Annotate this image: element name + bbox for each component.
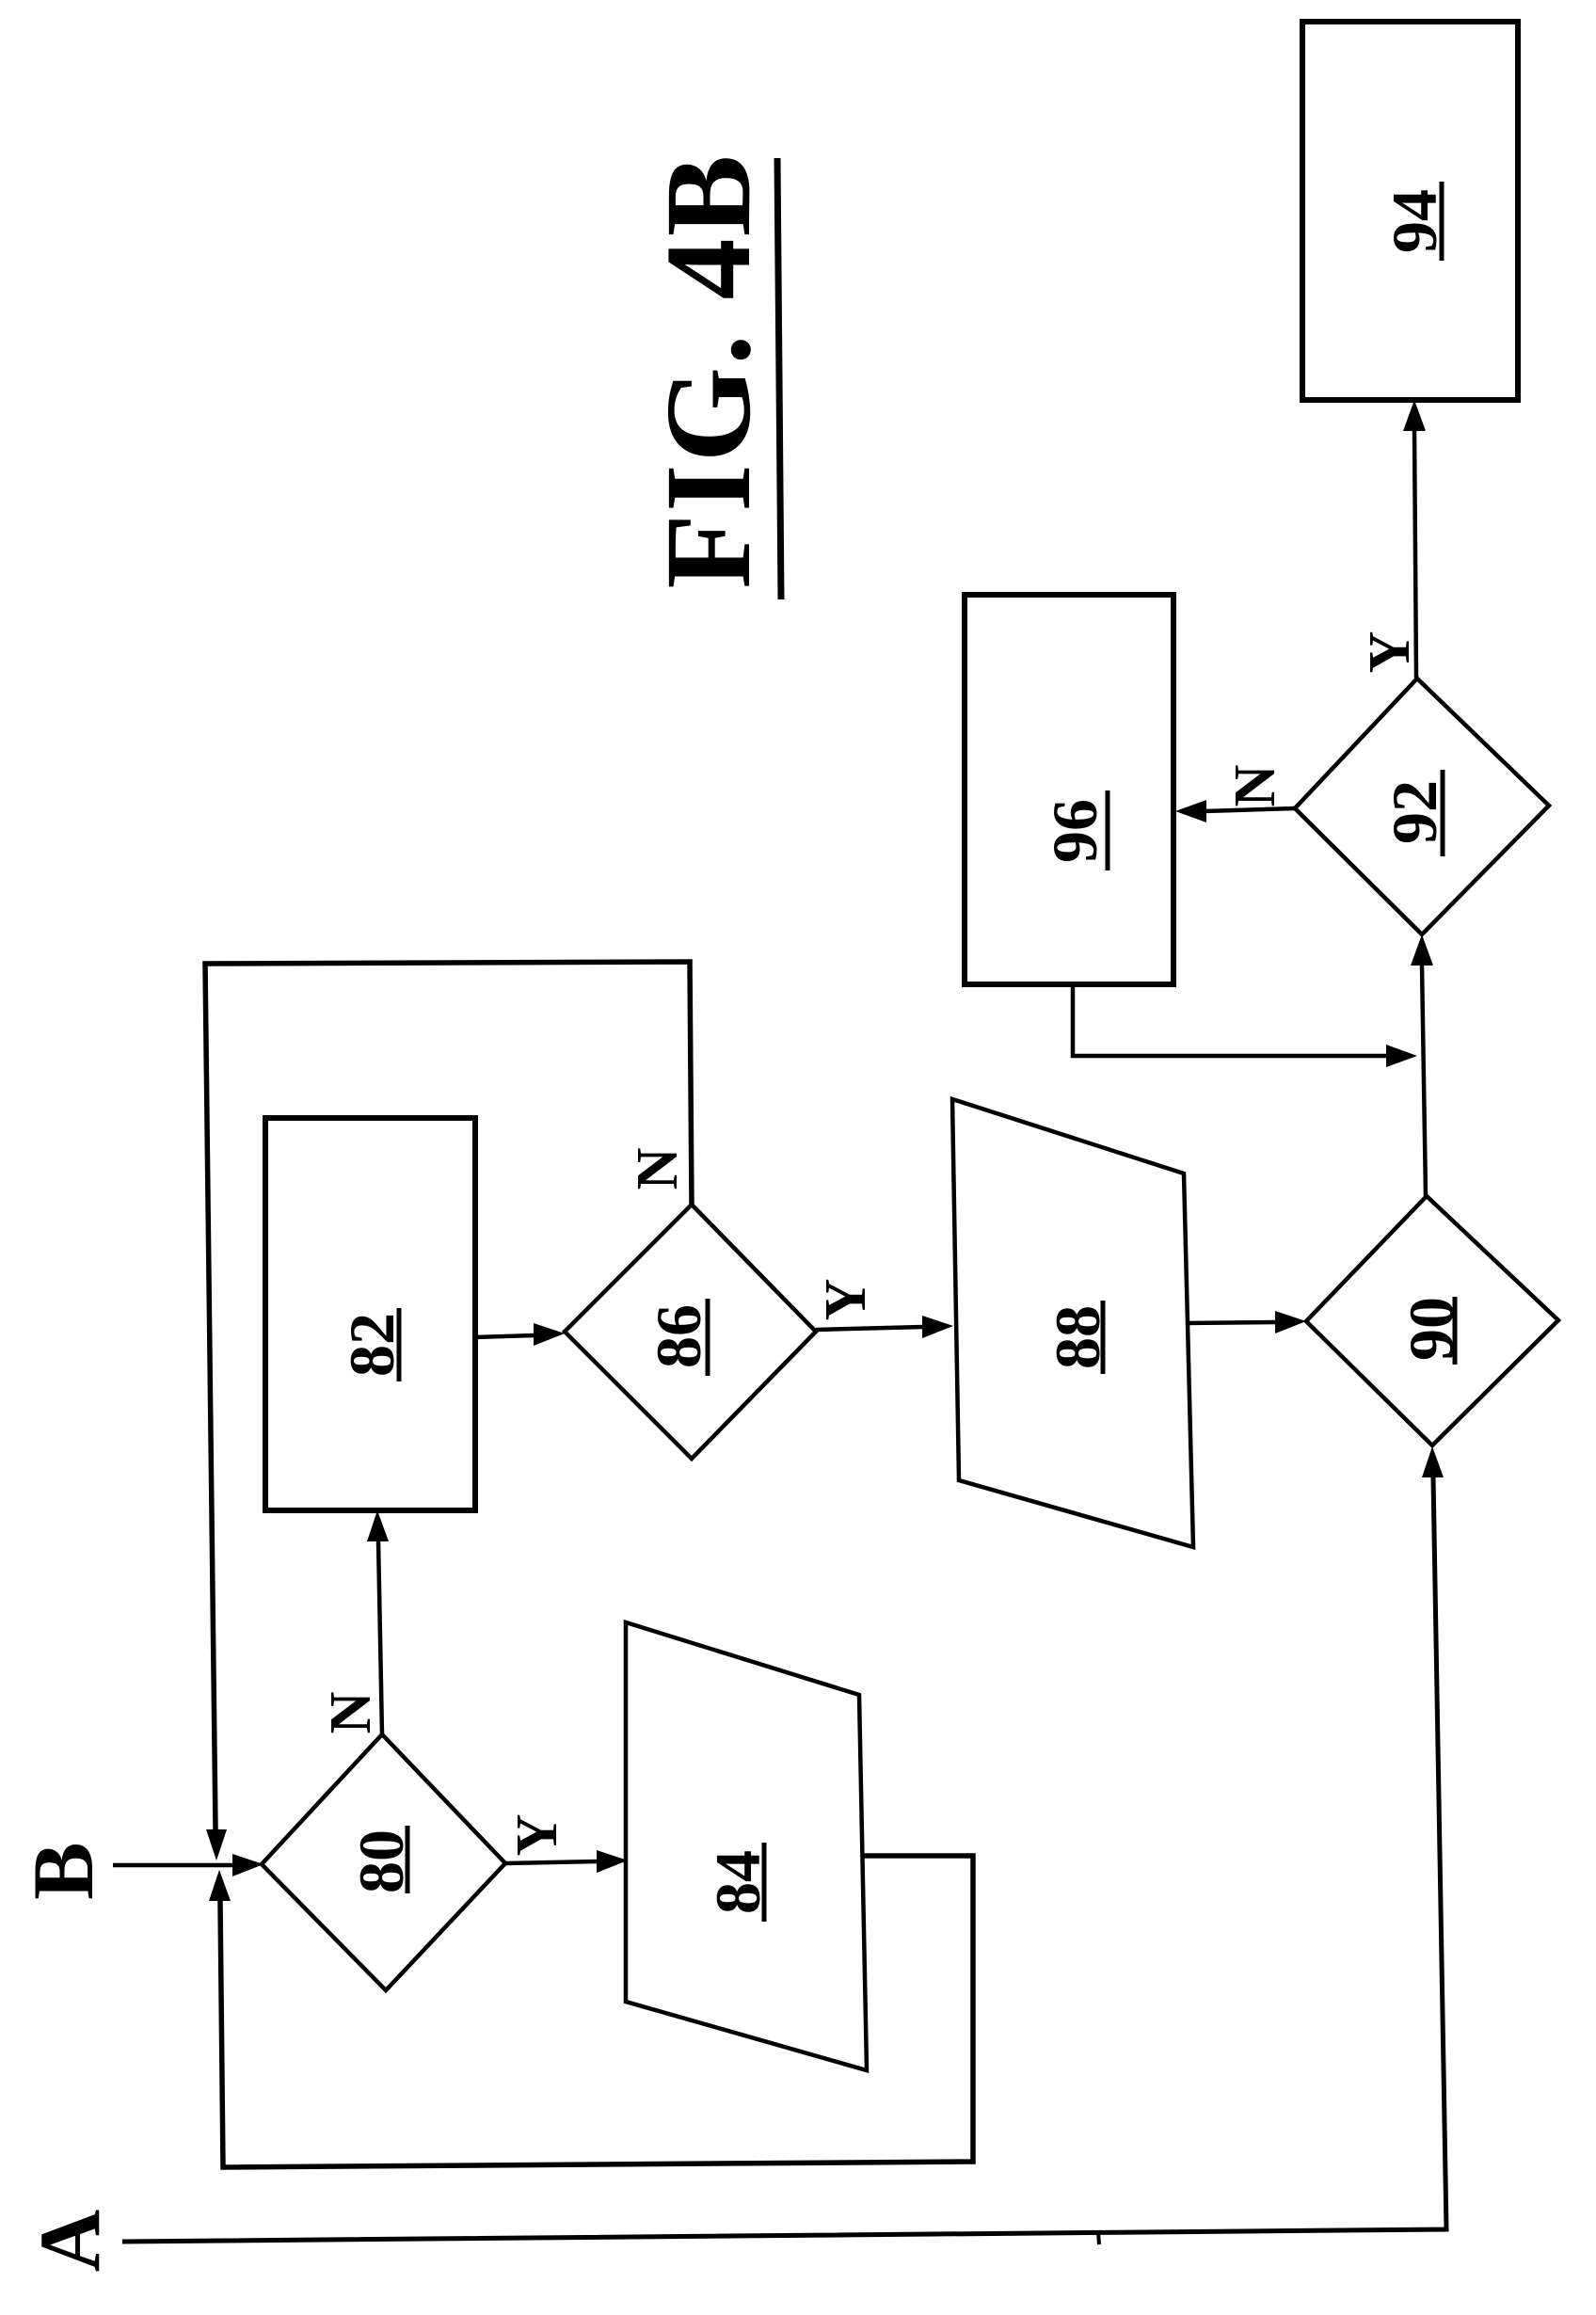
wire 82 to 86 bbox=[475, 1335, 535, 1337]
svg-text:92: 92 bbox=[1379, 780, 1450, 844]
arrowhead joining riser bbox=[1386, 1045, 1417, 1067]
arrowhead into 84 bbox=[597, 1850, 628, 1873]
arrowhead into 90 bbox=[1275, 1311, 1306, 1333]
wire 86 N loop to junction bbox=[205, 962, 692, 1829]
decision diamond 92 bbox=[1295, 679, 1549, 934]
svg-text:N: N bbox=[1223, 765, 1287, 807]
process box 82 bbox=[265, 1118, 475, 1510]
label 94 bbox=[1379, 182, 1450, 261]
io parallelogram 84 bbox=[626, 1622, 867, 2070]
arrowhead into 82 bbox=[367, 1510, 389, 1541]
wire 86 Y to 88 bbox=[816, 1327, 923, 1330]
label 96 bbox=[1039, 790, 1110, 870]
arrowhead into 86 bbox=[534, 1323, 565, 1346]
arrowhead down into junction bbox=[206, 1829, 227, 1860]
svg-text:B: B bbox=[15, 1842, 111, 1899]
wire 92 Y to 94 bbox=[1414, 428, 1416, 679]
decision diamond 80 bbox=[262, 1734, 505, 1990]
label 82 bbox=[336, 1308, 407, 1381]
label 84 bbox=[702, 1843, 774, 1922]
svg-text:N: N bbox=[319, 1692, 383, 1734]
arrowhead into 80 bbox=[232, 1854, 263, 1876]
label 80 bbox=[345, 1826, 417, 1893]
wire 84 output loop to junction bbox=[220, 1856, 973, 2167]
label 90 bbox=[1396, 1297, 1467, 1365]
arrowhead into 96 bbox=[1175, 800, 1206, 822]
svg-text:N: N bbox=[626, 1148, 690, 1190]
arrowhead into 94 bbox=[1403, 400, 1426, 431]
wire 80 Y to 84 bbox=[505, 1861, 598, 1863]
svg-text:Y: Y bbox=[1358, 631, 1422, 674]
svg-text:86: 86 bbox=[643, 1304, 714, 1368]
arrowhead into 92 bbox=[1411, 934, 1433, 966]
scan tick on wire A bbox=[1098, 2232, 1099, 2244]
svg-text:Y: Y bbox=[505, 1814, 569, 1857]
svg-text:FIG. 4B: FIG. 4B bbox=[641, 152, 776, 588]
decision diamond 90 bbox=[1306, 1196, 1558, 1445]
svg-text:A: A bbox=[22, 2210, 118, 2272]
label 86 bbox=[643, 1299, 714, 1376]
io parallelogram 88 bbox=[952, 1099, 1193, 1547]
wire 92 N to 96 bbox=[1205, 808, 1295, 811]
wire 88 to 90 bbox=[1189, 1322, 1276, 1323]
wire 96 output down and right bbox=[1073, 984, 1387, 1056]
svg-text:96: 96 bbox=[1039, 799, 1110, 863]
title underline bbox=[777, 158, 781, 599]
wire 90 to 92 bbox=[1422, 965, 1426, 1196]
arrowhead into 88 bbox=[922, 1316, 953, 1338]
label 92 bbox=[1379, 770, 1450, 856]
wire B into 80 bbox=[113, 1863, 233, 1868]
arrowhead up into 90 bbox=[1422, 1446, 1444, 1477]
decision diamond 86 bbox=[565, 1205, 816, 1459]
wire A to 90 bbox=[122, 1477, 1446, 2242]
process box 96 bbox=[965, 595, 1173, 984]
svg-text:Y: Y bbox=[814, 1279, 878, 1321]
process box 94 bbox=[1302, 22, 1518, 400]
wire 80 N to 82 bbox=[378, 1541, 382, 1734]
arrowhead up into junction bbox=[209, 1870, 231, 1901]
label 88 bbox=[1042, 1301, 1113, 1374]
